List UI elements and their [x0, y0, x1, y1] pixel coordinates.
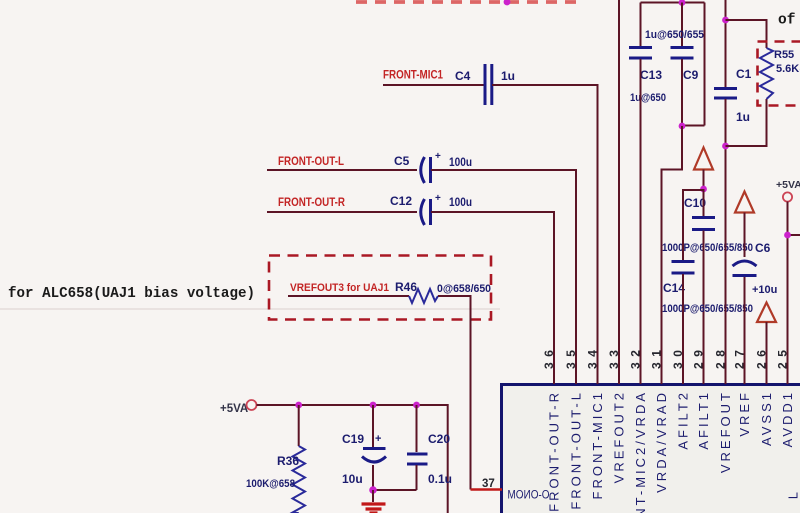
svg-text:+: +: [435, 151, 441, 162]
svg-text:+5VA: +5VA: [776, 179, 800, 191]
capacitor C6 (polarized): [733, 241, 778, 296]
wire FRONT-OUT-L to C5: [267, 169, 417, 171]
svg-text:FRONT-OUT-R: FRONT-OUT-R: [278, 195, 345, 209]
wire jog to pin 31: [662, 126, 683, 384]
IC U1 (codec block, partially visible): [502, 385, 800, 513]
wire C19 top: [372, 405, 374, 447]
resistor R36: [246, 446, 305, 513]
wire C14 to pin 30: [682, 274, 684, 384]
node R36 branch: [295, 402, 302, 409]
capacitor C13: [629, 48, 666, 105]
svg-text:FRONT-OUT-L: FRONT-OUT-L: [569, 390, 584, 510]
wire +5VA rail: [257, 405, 448, 513]
svg-text:1000P@650/655/850: 1000P@650/655/850: [662, 242, 753, 254]
node C10 top: [700, 186, 707, 193]
wire C5 to pin 35: [431, 170, 576, 384]
wire C12 to pin 36: [431, 212, 554, 384]
capacitor C12 (polarized): [390, 193, 472, 225]
power symbol (VREF rail): [735, 192, 754, 258]
node C19 branch: [370, 402, 377, 409]
resistor R46: [395, 280, 491, 303]
wire C19-C20 bottoms: [373, 465, 417, 490]
wire FRONT-OUT-R to C12: [267, 211, 417, 213]
svg-text:C5: C5: [394, 154, 410, 168]
svg-text:AVDD1: AVDD1: [780, 390, 795, 447]
power symbol (AFILT1 rail): [694, 148, 713, 190]
svg-text:VREFOUT: VREFOUT: [718, 390, 733, 473]
node top bus: [679, 0, 686, 6]
svg-text:AVSS1: AVSS1: [759, 390, 774, 446]
wire C10 to pin 29: [703, 231, 705, 385]
scan artifact line: [0, 308, 500, 310]
svg-text:+5VA: +5VA: [220, 403, 248, 415]
svg-text:0.1u: 0.1u: [428, 472, 452, 486]
svg-text:C20: C20: [428, 432, 450, 446]
svg-text:C4: C4: [455, 69, 471, 83]
capacitor C5 (polarized): [394, 151, 472, 183]
svg-text:C6: C6: [755, 241, 771, 255]
svg-text:VRDA/VRAD: VRDA/VRAD: [654, 390, 669, 493]
svg-text:1000P@650/655/850: 1000P@650/655/850: [662, 303, 753, 315]
svg-text:AFILT2: AFILT2: [676, 390, 691, 450]
wire C9 bottom: [681, 59, 683, 126]
wire C1 bottom to pin 28: [725, 99, 727, 384]
node C19 bottom: [369, 486, 377, 494]
svg-text:1u@650: 1u@650: [630, 92, 666, 104]
power symbol (AVSS1): [757, 303, 776, 385]
svg-text:R46: R46: [395, 280, 417, 294]
dashed box VREFOUT3: [269, 256, 491, 320]
svg-text:AFILT1: AFILT1: [696, 390, 711, 450]
svg-text:C1: C1: [736, 67, 752, 81]
dashed box (top, cut off): [356, 0, 581, 4]
wire C14 top link: [683, 190, 704, 260]
svg-text:C14: C14: [663, 281, 685, 295]
svg-text:for ALC658(UAJ1 bias voltage): for ALC658(UAJ1 bias voltage): [8, 285, 255, 302]
wire C13 top: [640, 3, 642, 47]
capacitor C9: [645, 3, 704, 83]
ground symbol (below C19, cut off): [362, 490, 386, 513]
node C20 branch: [413, 402, 420, 409]
wire C1 top (from top edge): [725, 0, 727, 88]
wire R55 loop: [726, 20, 767, 146]
svg-text:FRONT-OUT-L: FRONT-OUT-L: [278, 154, 344, 168]
svg-text:L: L: [786, 489, 800, 499]
node C9 bottom junction: [679, 123, 686, 130]
svg-text:100u: 100u: [449, 155, 472, 169]
svg-text:+: +: [375, 433, 381, 445]
wire C6 to pin 27: [744, 277, 746, 384]
svg-text:R55: R55: [774, 49, 794, 61]
svg-text:100u: 100u: [449, 195, 472, 209]
svg-text:1u: 1u: [501, 69, 515, 83]
wire R36 top: [298, 405, 300, 446]
svg-text:VREFOUT3 for UAJ1: VREFOUT3 for UAJ1: [290, 282, 389, 294]
wire pin 33 (VREFOUT2 from top): [618, 0, 620, 384]
wire top bus (C13/C9 tops): [641, 2, 705, 4]
svg-text:of: of: [778, 13, 795, 29]
svg-text:VREF: VREF: [737, 390, 752, 437]
svg-text:0@658/650: 0@658/650: [437, 283, 491, 295]
svg-text:1u@650/655: 1u@650/655: [645, 29, 704, 41]
node on top dashed line: [504, 0, 511, 5]
svg-text:O-ONOM: O-ONOM: [508, 490, 550, 502]
capacitor C20: [407, 432, 452, 486]
svg-text:10u: 10u: [342, 472, 363, 486]
node C1 bottom: [722, 143, 729, 150]
pin 37 stub: [471, 488, 503, 491]
svg-text:C9: C9: [683, 68, 699, 82]
svg-text:37: 37: [482, 478, 495, 490]
svg-text:VREFOUT2: VREFOUT2: [612, 390, 627, 483]
svg-text:+10u: +10u: [752, 284, 777, 296]
wire bypass right: [682, 3, 705, 126]
wire C4 to pin 34: [492, 85, 598, 384]
wire C20 top: [416, 405, 418, 452]
svg-text:+: +: [435, 193, 441, 204]
svg-text:FRONT-MIC1: FRONT-MIC1: [383, 68, 443, 82]
wire C19 bottom: [372, 465, 374, 490]
svg-text:R36: R36: [277, 454, 299, 468]
capacitor C19 (polarized): [342, 432, 386, 486]
svg-text:FRONT-MIC1: FRONT-MIC1: [590, 390, 605, 499]
capacitor C4: [455, 64, 515, 105]
svg-text:C19: C19: [342, 432, 364, 446]
power terminal +5VA (right): [776, 179, 800, 202]
svg-text:100K@658: 100K@658: [246, 478, 295, 490]
svg-text:C13: C13: [640, 68, 662, 82]
svg-text:5.6K@6: 5.6K@6: [776, 63, 800, 75]
wire R46 to pin 37: [438, 296, 471, 490]
svg-text:FRONT-MIC2/VRDA: FRONT-MIC2/VRDA: [633, 390, 648, 513]
wire FRONT-MIC1 to C4: [383, 84, 484, 86]
wire C13 to pin 32: [640, 59, 642, 384]
dashed box R55: [758, 42, 800, 106]
svg-text:1u: 1u: [736, 110, 750, 124]
node C1 top: [722, 17, 729, 24]
capacitor C1: [714, 67, 752, 124]
svg-text:C12: C12: [390, 194, 412, 208]
node AVDD branch: [784, 232, 791, 239]
resistor R55: [760, 48, 800, 99]
capacitor C10: [662, 189, 753, 254]
capacitor C14: [662, 262, 753, 316]
wire +5VA to pin 25: [788, 202, 800, 385]
wire VREFOUT3 to R46: [288, 295, 409, 297]
power terminal +5VA (left): [220, 400, 257, 415]
